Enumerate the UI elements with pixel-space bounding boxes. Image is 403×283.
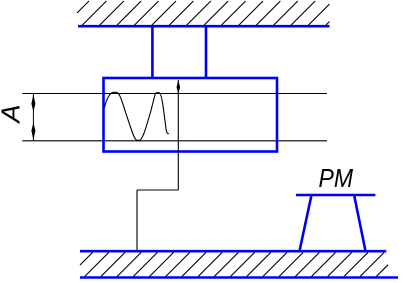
dimension arrow up [31, 94, 35, 112]
amplitude lower reference line [22, 140, 327, 142]
signal wire vertical from box [177, 80, 179, 190]
signal wire vertical to floor [136, 190, 138, 251]
amplitude upper reference line [22, 93, 327, 95]
signal wire horizontal jog [137, 189, 178, 191]
device PM left leg [300, 196, 312, 250]
svg-text:PM: PM [319, 165, 354, 193]
dimension arrow down [31, 123, 35, 141]
device PM right leg [354, 196, 365, 250]
mount pillar left [151, 26, 154, 78]
ceiling surface line [78, 25, 330, 28]
svg-text:A: A [0, 104, 26, 124]
sine waveform [105, 92, 169, 140]
floor surface top line [80, 250, 386, 253]
floor bottom line [80, 276, 398, 279]
dimension line A [32, 94, 34, 140]
mount pillar right [205, 26, 208, 78]
vibrator box [104, 78, 278, 152]
floor hatch [80, 253, 388, 277]
signal arrow into box [177, 80, 181, 94]
device PM top plate [296, 194, 375, 197]
ceiling hatch [77, 1, 330, 26]
